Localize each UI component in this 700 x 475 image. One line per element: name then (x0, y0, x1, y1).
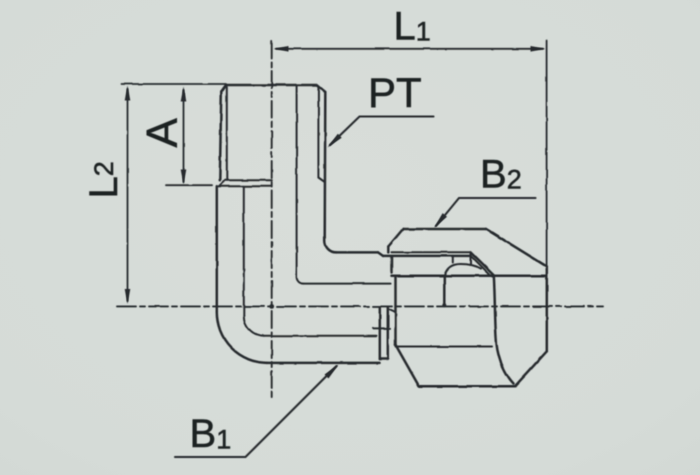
thread top-left chamfer (221, 85, 226, 92)
thread runout jog right (318, 178, 324, 183)
nut top-right slant (486, 229, 547, 267)
thread relief line 1 (225, 179, 272, 181)
nut hex chamfer curve (494, 276, 514, 384)
sleeve band left edge (379, 308, 382, 360)
svg-text:PT: PT (368, 69, 422, 116)
thread top-right chamfer (317, 85, 325, 92)
A top arrow (181, 87, 187, 102)
B1 leader arrow (325, 365, 339, 379)
nut bottom-right slant (515, 351, 547, 386)
bore right line (296, 85, 298, 277)
PT leader line (330, 117, 434, 146)
bore right arc (297, 277, 304, 284)
elbow outer arc (217, 312, 268, 363)
horizontal centerline (117, 305, 603, 307)
B2 leader line (436, 198, 536, 226)
body left edge (216, 186, 219, 311)
flare short vertical 1 (452, 256, 454, 263)
L1 left arrow (274, 46, 289, 52)
tube bore top line (303, 283, 390, 285)
tube top second line (383, 255, 471, 258)
flare cone diagonal 2 (471, 256, 491, 276)
dimension A line (183, 90, 185, 182)
vertical centerline (271, 41, 273, 401)
extension line A bottom (166, 184, 212, 186)
L2 bottom arrow (125, 289, 131, 304)
bore left arc (244, 316, 264, 336)
centerline junction dot (269, 304, 274, 309)
B2 leader arrow (434, 213, 447, 228)
PT leader arrow (328, 134, 342, 148)
nut mid flat upper line (392, 275, 547, 278)
male thread top edge (226, 84, 317, 87)
nut bottom flat (419, 385, 515, 388)
tube top edge step (378, 252, 383, 256)
dimension L1 line (276, 48, 543, 50)
nut right face (546, 267, 549, 352)
L1 right arrow (531, 46, 546, 52)
nut collar left face (390, 256, 393, 272)
extension line L1 right (546, 40, 548, 270)
flare tube edge end dot (442, 303, 446, 307)
nut top-left slant (388, 229, 403, 247)
sleeve band right edge (387, 308, 390, 360)
nut left face (394, 276, 397, 345)
dimension arrows (125, 46, 546, 379)
B1 leader line (175, 366, 337, 457)
flare dome arc (444, 264, 480, 276)
nut top-left corner vertical (387, 247, 390, 253)
thread relief line 2 (219, 185, 271, 187)
sleeve band bottom cap (380, 358, 388, 361)
thread runout diagonal left (219, 180, 225, 186)
tube inner end line (373, 327, 390, 329)
L2 top arrow (125, 86, 131, 101)
extension line top (L2/A datum) (121, 83, 226, 85)
elbow inner corner arc (325, 241, 336, 252)
dimension L2 line (127, 89, 129, 301)
nut bottom-left slant (396, 345, 420, 386)
bore left line (243, 186, 245, 315)
A bottom arrow (181, 170, 187, 185)
tube top edge (336, 251, 378, 254)
thread right root line (317, 87, 319, 178)
tube bottom edge (267, 362, 379, 365)
thread left root line (226, 87, 228, 180)
nut mid flat lower line (396, 346, 493, 348)
nut collar top line (392, 251, 471, 253)
thread/body right edge (323, 92, 326, 241)
flare tube left edge (443, 276, 446, 306)
flare cone diagonal 1 (471, 252, 494, 275)
sleeve-nut diagonal (388, 309, 396, 313)
flare short vertical 2 (470, 252, 472, 265)
nut top flat (403, 228, 486, 231)
tube bore bottom line (264, 335, 377, 337)
svg-text:A: A (138, 118, 187, 148)
thread left edge (220, 92, 222, 181)
